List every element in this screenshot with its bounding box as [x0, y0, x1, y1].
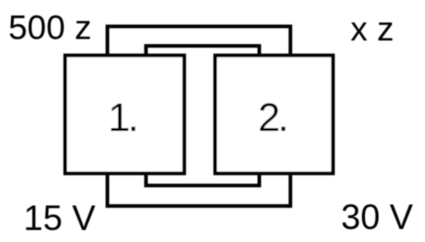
svg-text:x z: x z	[351, 11, 394, 49]
transformer core inner loop	[146, 46, 259, 186]
transformer core outer loop	[107, 26, 290, 206]
primary winding box 1	[65, 55, 184, 173]
svg-text:15 V: 15 V	[24, 199, 97, 238]
svg-text:30 V: 30 V	[341, 198, 414, 237]
svg-text:2.: 2.	[258, 96, 286, 140]
svg-text:1.: 1.	[108, 96, 136, 140]
secondary winding box 2	[215, 55, 333, 173]
svg-text:500 z: 500 z	[8, 9, 91, 47]
